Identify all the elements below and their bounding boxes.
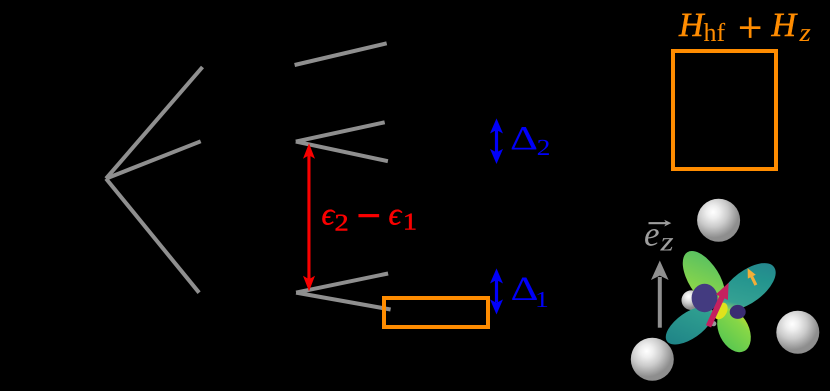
svg-text:hf: hf xyxy=(704,18,726,47)
top level line xyxy=(295,43,387,65)
middle fan upper line xyxy=(296,122,385,141)
blue double arrow Delta1 xyxy=(490,268,503,314)
atom sphere bottom-left xyxy=(631,338,674,381)
crimson spin arrow xyxy=(706,283,729,328)
label Delta2 xyxy=(510,121,551,160)
svg-text:ϵ: ϵ xyxy=(389,197,403,232)
svg-text:Δ: Δ xyxy=(510,121,538,158)
svg-text:z: z xyxy=(659,227,674,257)
middle fan lower line xyxy=(296,142,388,162)
orbital yellow center xyxy=(711,300,730,322)
bottom fan upper line xyxy=(296,274,388,293)
orbital lobe lower-right green xyxy=(710,303,757,357)
label epsilon2 - epsilon1 xyxy=(322,197,418,237)
blue double arrow Delta2 xyxy=(490,118,503,164)
label Delta1 xyxy=(510,271,548,312)
atom sphere central crescent xyxy=(682,290,702,310)
svg-text:H: H xyxy=(771,7,799,44)
atom sphere right xyxy=(776,311,819,354)
svg-text:1: 1 xyxy=(403,210,417,236)
orbital core purple left xyxy=(692,284,718,312)
svg-text:z: z xyxy=(798,18,810,47)
orange mini arrow xyxy=(748,268,758,286)
orbital lobe lower-left teal xyxy=(660,299,720,352)
wire left fan middle line xyxy=(106,141,201,178)
svg-text:e: e xyxy=(644,214,660,253)
atom sphere top xyxy=(697,199,740,242)
orbital core purple right xyxy=(730,305,746,319)
svg-text:2: 2 xyxy=(537,135,551,160)
atom sphere central bottom sliver xyxy=(711,321,717,326)
bottom fan lower line xyxy=(296,293,391,310)
orange rectangle around lowest level xyxy=(384,298,488,327)
wire left fan lower line xyxy=(106,179,199,293)
svg-text:H: H xyxy=(678,7,706,44)
orbital lobe upper-right teal xyxy=(712,254,783,319)
orbital lobe upper-left green xyxy=(674,244,734,314)
wire left fan upper line xyxy=(106,67,203,179)
orange box Hhf+Hz xyxy=(673,51,776,169)
label H_hf + H_z xyxy=(678,7,811,47)
label e_z with vector arrow xyxy=(644,214,674,256)
svg-text:ϵ: ϵ xyxy=(322,197,336,232)
svg-text:1: 1 xyxy=(535,287,549,312)
svg-text:2: 2 xyxy=(335,210,349,236)
red double arrow e2-e1 xyxy=(303,143,315,291)
gray arrow e_z axis xyxy=(651,261,669,328)
